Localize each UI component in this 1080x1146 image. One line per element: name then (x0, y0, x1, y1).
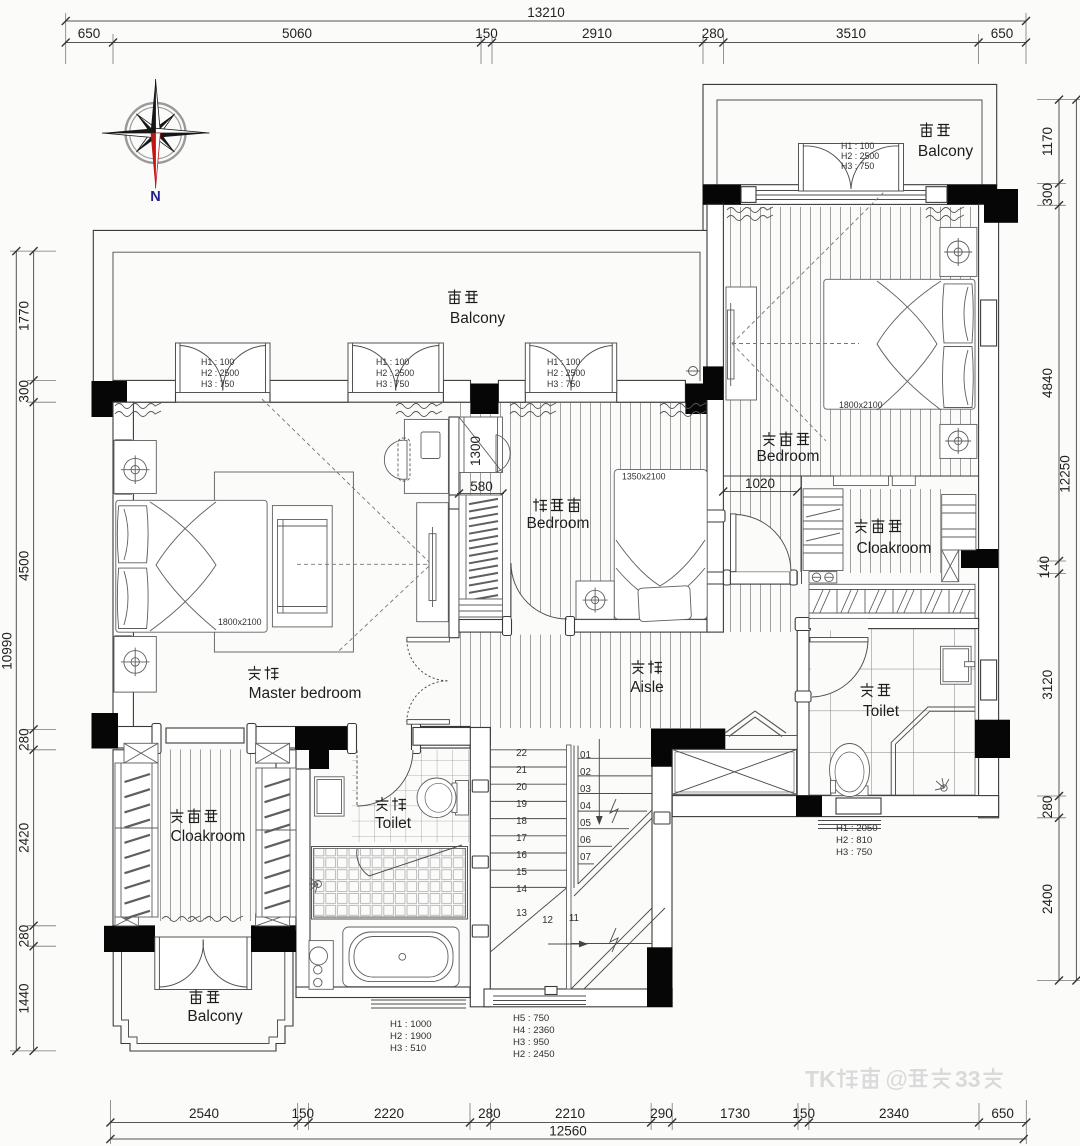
svg-text:1730: 1730 (720, 1106, 750, 1121)
nightstand (576, 581, 614, 619)
svg-text:13: 13 (516, 908, 527, 919)
svg-text:22: 22 (516, 748, 527, 759)
svg-text:H1 : 100: H1 : 100 (376, 357, 409, 367)
bottom wall (484, 989, 672, 1007)
shower mosaic floor (313, 849, 466, 918)
bottom wall with balcony door (113, 926, 296, 946)
nightstand bottom (940, 424, 977, 458)
svg-text:H2 : 1900: H2 : 1900 (390, 1031, 432, 1042)
mirror cabinet (314, 777, 344, 816)
svg-text:16: 16 (516, 850, 527, 861)
bottom wall (672, 796, 998, 817)
bottom balcony outline (113, 946, 293, 1051)
wardrobe with hangers (459, 495, 503, 599)
svg-text:H4 : 2360: H4 : 2360 (513, 1025, 555, 1036)
svg-text:1170: 1170 (1040, 127, 1055, 156)
svg-text:2540: 2540 (189, 1106, 219, 1121)
balcony french door 2 (348, 343, 443, 393)
svg-text:H2 : 810: H2 : 810 (836, 835, 872, 846)
露台 bottom (190, 990, 202, 1004)
WC (830, 744, 870, 797)
shower screen diagonal (369, 845, 462, 876)
right outer wall (961, 189, 1018, 818)
svg-text:02: 02 (580, 767, 591, 778)
upper diagonal pair with break (574, 799, 652, 896)
svg-text:280: 280 (702, 26, 725, 41)
left outer wall of master bedroom (113, 402, 133, 729)
svg-text:15: 15 (516, 867, 527, 878)
children room bottom wall (459, 563, 707, 636)
svg-text:H1 : 100: H1 : 100 (841, 141, 874, 151)
pillows (117, 506, 148, 563)
continuous wall bottom line (113, 401, 710, 403)
top dimension chain (62, 5, 1030, 64)
svg-text:18: 18 (516, 816, 527, 827)
svg-text:1440: 1440 (17, 983, 32, 1013)
露台 TL (449, 290, 461, 304)
stair block walls (413, 711, 797, 1007)
top wall of stairwell (413, 728, 490, 746)
tread numbers (516, 748, 591, 926)
svg-text:1300: 1300 (468, 436, 483, 466)
svg-text:4500: 4500 (17, 551, 32, 581)
door H annotations (201, 141, 879, 1060)
shelf unit at bottom of strip (459, 599, 503, 622)
foot bench (272, 506, 332, 627)
主卫 walls (251, 769, 470, 1008)
desk at NE corner (404, 419, 448, 493)
svg-text:Cloakroom: Cloakroom (857, 540, 932, 557)
svg-text:H1 : 100: H1 : 100 (201, 357, 234, 367)
svg-text:H3 : 510: H3 : 510 (390, 1043, 426, 1054)
露台 TR (921, 123, 933, 137)
vent tent symbol (725, 711, 797, 737)
left wardrobe (115, 763, 158, 917)
stairs (490, 739, 665, 989)
lobby in front of toilet (723, 584, 797, 632)
svg-text:1800x2100: 1800x2100 (839, 400, 883, 410)
parents room door wall (723, 514, 797, 585)
parents room furniture (726, 192, 977, 458)
svg-text:H1 : 100: H1 : 100 (547, 357, 580, 367)
svg-text:140: 140 (1037, 556, 1052, 579)
east wall of stairwell (652, 745, 672, 989)
X box (942, 550, 959, 582)
wavy insulation squiggles (115, 207, 964, 922)
svg-text:650: 650 (991, 1106, 1014, 1121)
svg-text:H2 : 2500: H2 : 2500 (376, 368, 414, 378)
upper-right balcony outline (703, 84, 997, 230)
sight dash lines (262, 399, 429, 651)
west boundary line (801, 476, 803, 584)
svg-text:Toilet: Toilet (863, 703, 900, 720)
wardrobe / desk strip between master and children rooms (455, 417, 510, 622)
duvet sweep (150, 502, 216, 631)
1020 dim at parents door (719, 476, 801, 496)
父母房 (763, 433, 775, 446)
nightstand bottom (114, 637, 156, 693)
svg-text:290: 290 (650, 1106, 673, 1121)
duvet sweep (877, 281, 941, 410)
main top wall band (master + children rooms) (92, 343, 711, 417)
svg-text:150: 150 (792, 1106, 815, 1121)
diagonal points (133, 111, 177, 155)
svg-text:Master bedroom: Master bedroom (249, 685, 362, 702)
left cloakroom walls (104, 750, 296, 990)
svg-text:20: 20 (516, 782, 527, 793)
TV sideboard on east wall (417, 503, 449, 622)
svg-text:4840: 4840 (1040, 368, 1055, 398)
left cloakroom wardrobes (115, 743, 296, 926)
corner column (92, 381, 128, 417)
主卫 (toilet) (376, 798, 388, 811)
svg-text:Bedroom: Bedroom (757, 448, 820, 465)
svg-text:H3 : 750: H3 : 750 (201, 379, 234, 389)
right section balcony wall band (703, 144, 997, 205)
upper-left balcony outline (93, 230, 710, 381)
衣帽间 right (855, 520, 867, 533)
X box columns (115, 743, 290, 926)
svg-text:01: 01 (580, 750, 591, 761)
top line and sliding doors (723, 475, 978, 477)
column right of children room (685, 384, 710, 415)
nightstand top (940, 227, 977, 276)
left cloakroom floor (158, 745, 256, 921)
right flight treads (574, 746, 652, 889)
left wardrobe (803, 489, 843, 571)
bed 1350x2100 (614, 469, 707, 619)
bed 1800x2100 (116, 500, 267, 632)
svg-text:H2 : 2500: H2 : 2500 (201, 368, 239, 378)
主卧 (249, 667, 261, 680)
compass rose (102, 79, 210, 205)
svg-text:H3 : 950: H3 : 950 (513, 1037, 549, 1048)
room labels (171, 123, 950, 1004)
lower diagonal pair with break (571, 908, 665, 989)
svg-text:2910: 2910 (582, 26, 612, 41)
wall between aisle and parents room (703, 204, 725, 632)
svg-text:12: 12 (542, 915, 553, 926)
south wardrobe band with slashes (809, 584, 975, 618)
svg-text:5060: 5060 (282, 26, 312, 41)
children door (511, 563, 567, 619)
shower enclosure (891, 707, 975, 796)
主卫 fixtures (309, 750, 469, 989)
svg-text:2210: 2210 (555, 1106, 585, 1121)
svg-text:2220: 2220 (374, 1106, 404, 1121)
svg-text:1020: 1020 (745, 476, 775, 491)
wall segments outline (113, 380, 176, 402)
svg-text:H3 : 750: H3 : 750 (376, 379, 409, 389)
svg-text:21: 21 (516, 765, 527, 776)
svg-text:650: 650 (78, 26, 101, 41)
svg-text:2400: 2400 (1040, 884, 1055, 914)
svg-text:H2 : 2500: H2 : 2500 (841, 151, 879, 161)
aisle floor (460, 619, 706, 728)
svg-text:19: 19 (516, 799, 527, 810)
arrow horizontal at bottom (548, 941, 588, 948)
winder diagonal (490, 888, 566, 952)
blanket curves (616, 540, 705, 586)
door (810, 638, 868, 698)
svg-text:03: 03 (580, 784, 591, 795)
svg-text:150: 150 (475, 26, 498, 41)
TV cabinet (726, 287, 757, 400)
master bedroom bottom wall (92, 713, 471, 769)
svg-text:280: 280 (1040, 796, 1055, 819)
right dimension chain (1037, 96, 1080, 985)
shower head (309, 878, 322, 893)
watermark TK设计@装修33天 (805, 1066, 1002, 1092)
svg-text:Cloakroom: Cloakroom (171, 828, 246, 845)
svg-text:04: 04 (580, 801, 591, 812)
svg-text:Balcony: Balcony (918, 143, 973, 160)
svg-text:300: 300 (17, 380, 32, 403)
sight dash lines (732, 192, 884, 441)
door (357, 750, 413, 806)
svg-text:2420: 2420 (17, 823, 32, 853)
svg-text:07: 07 (580, 852, 591, 863)
toilet 外卫 walls (672, 616, 998, 828)
svg-text:10990: 10990 (0, 632, 15, 670)
french door to balcony (799, 144, 904, 192)
svg-text:3120: 3120 (1040, 670, 1055, 700)
svg-text:Bedroom: Bedroom (527, 515, 590, 532)
svg-text:1350x2100: 1350x2100 (622, 472, 666, 482)
svg-text:1800x2100: 1800x2100 (218, 617, 262, 627)
主卫 door opening gap (356, 725, 413, 749)
外卫 (861, 684, 873, 697)
svg-text:12250: 12250 (1058, 455, 1073, 493)
children room furniture (576, 469, 707, 621)
right cloakroom floor (843, 489, 942, 573)
svg-text:Aisle: Aisle (630, 679, 664, 696)
right cloakroom furniture (723, 476, 978, 618)
svg-text:12560: 12560 (549, 1124, 587, 1139)
svg-text:150: 150 (292, 1106, 315, 1121)
west wall (797, 619, 809, 796)
svg-text:1770: 1770 (17, 301, 32, 331)
pillows (943, 284, 974, 343)
balcony french door 1 (176, 343, 271, 393)
left dimension chain (0, 247, 56, 1055)
svg-text:H3 : 750: H3 : 750 (841, 161, 874, 171)
svg-text:17: 17 (516, 833, 527, 844)
svg-text:H1 : 1000: H1 : 1000 (390, 1019, 432, 1030)
balcony double door (155, 937, 252, 990)
column at 150 wall (471, 384, 499, 415)
black L wall at aisle corner (651, 729, 725, 767)
svg-text:280: 280 (17, 925, 32, 948)
toilet 外卫 tile floor (809, 629, 975, 796)
svg-text:H2 : 2450: H2 : 2450 (513, 1049, 555, 1060)
svg-text:TK: TK (805, 1066, 836, 1092)
floor finishes (158, 207, 979, 921)
svg-text:Balcony: Balcony (187, 1008, 242, 1025)
right wardrobe (942, 495, 976, 551)
过道 (632, 661, 644, 674)
wall cabinet (941, 646, 972, 684)
shower head (935, 778, 949, 791)
center stringer (567, 745, 572, 989)
shaft box with X (672, 749, 796, 794)
svg-text:05: 05 (580, 818, 591, 829)
svg-text:650: 650 (991, 26, 1014, 41)
svg-text:2340: 2340 (879, 1106, 909, 1121)
svg-text:300: 300 (1040, 183, 1055, 206)
svg-text:13210: 13210 (527, 5, 565, 20)
svg-text:H3 : 750: H3 : 750 (836, 847, 872, 858)
bathtub (343, 927, 459, 987)
儿童房 (534, 499, 547, 512)
master bedroom double entry door (407, 637, 450, 724)
nightstand top (114, 441, 156, 494)
east wall of master bedroom (407, 417, 459, 724)
svg-text:H1 : 2050: H1 : 2050 (836, 823, 878, 834)
threshold steps below bottom wall (818, 821, 881, 829)
svg-text:14: 14 (516, 884, 527, 895)
chair semicircle (496, 435, 510, 473)
bed 1800x2100 (824, 279, 975, 409)
pillow (638, 586, 692, 622)
svg-text:280: 280 (478, 1106, 501, 1121)
balcony french door 3 (525, 343, 616, 393)
landing boundary (571, 943, 652, 945)
svg-text:280: 280 (17, 728, 32, 751)
svg-text:H3 : 750: H3 : 750 (547, 379, 580, 389)
svg-text:H5 : 750: H5 : 750 (513, 1013, 549, 1024)
master bedroom furniture (114, 399, 448, 692)
top wall (809, 618, 979, 628)
parents bedroom floor (723, 207, 979, 476)
cardinal long points (151, 79, 156, 133)
left flight treads (490, 750, 566, 888)
rug (214, 472, 353, 652)
door sill posts (152, 724, 161, 754)
chair (384, 440, 407, 479)
master bedroom east wardrobe strip floor (459, 403, 705, 619)
外卫 fixtures (830, 646, 976, 796)
svg-text:Toilet: Toilet (375, 815, 412, 832)
right wardrobe (256, 768, 296, 917)
衣帽间 left (171, 810, 183, 823)
svg-text:3510: 3510 (836, 26, 866, 41)
toilet 主卫 tile floor (352, 750, 470, 842)
svg-text:N: N (150, 189, 160, 205)
vanity with basin (309, 941, 333, 990)
svg-text:@: @ (885, 1066, 908, 1092)
down arrow vertical (596, 739, 603, 825)
small drain symbol (689, 367, 698, 376)
twin basin vanity (809, 572, 837, 583)
svg-text:11: 11 (569, 913, 579, 924)
bottom dimension chain (106, 1100, 1030, 1144)
svg-text:Balcony: Balcony (450, 310, 505, 327)
svg-text:33: 33 (955, 1066, 981, 1092)
parents room door (731, 514, 791, 572)
west wall (470, 728, 490, 1007)
svg-text:580: 580 (470, 479, 493, 494)
svg-text:H2 : 2500: H2 : 2500 (547, 368, 585, 378)
WC (417, 778, 469, 818)
svg-text:06: 06 (580, 835, 591, 846)
